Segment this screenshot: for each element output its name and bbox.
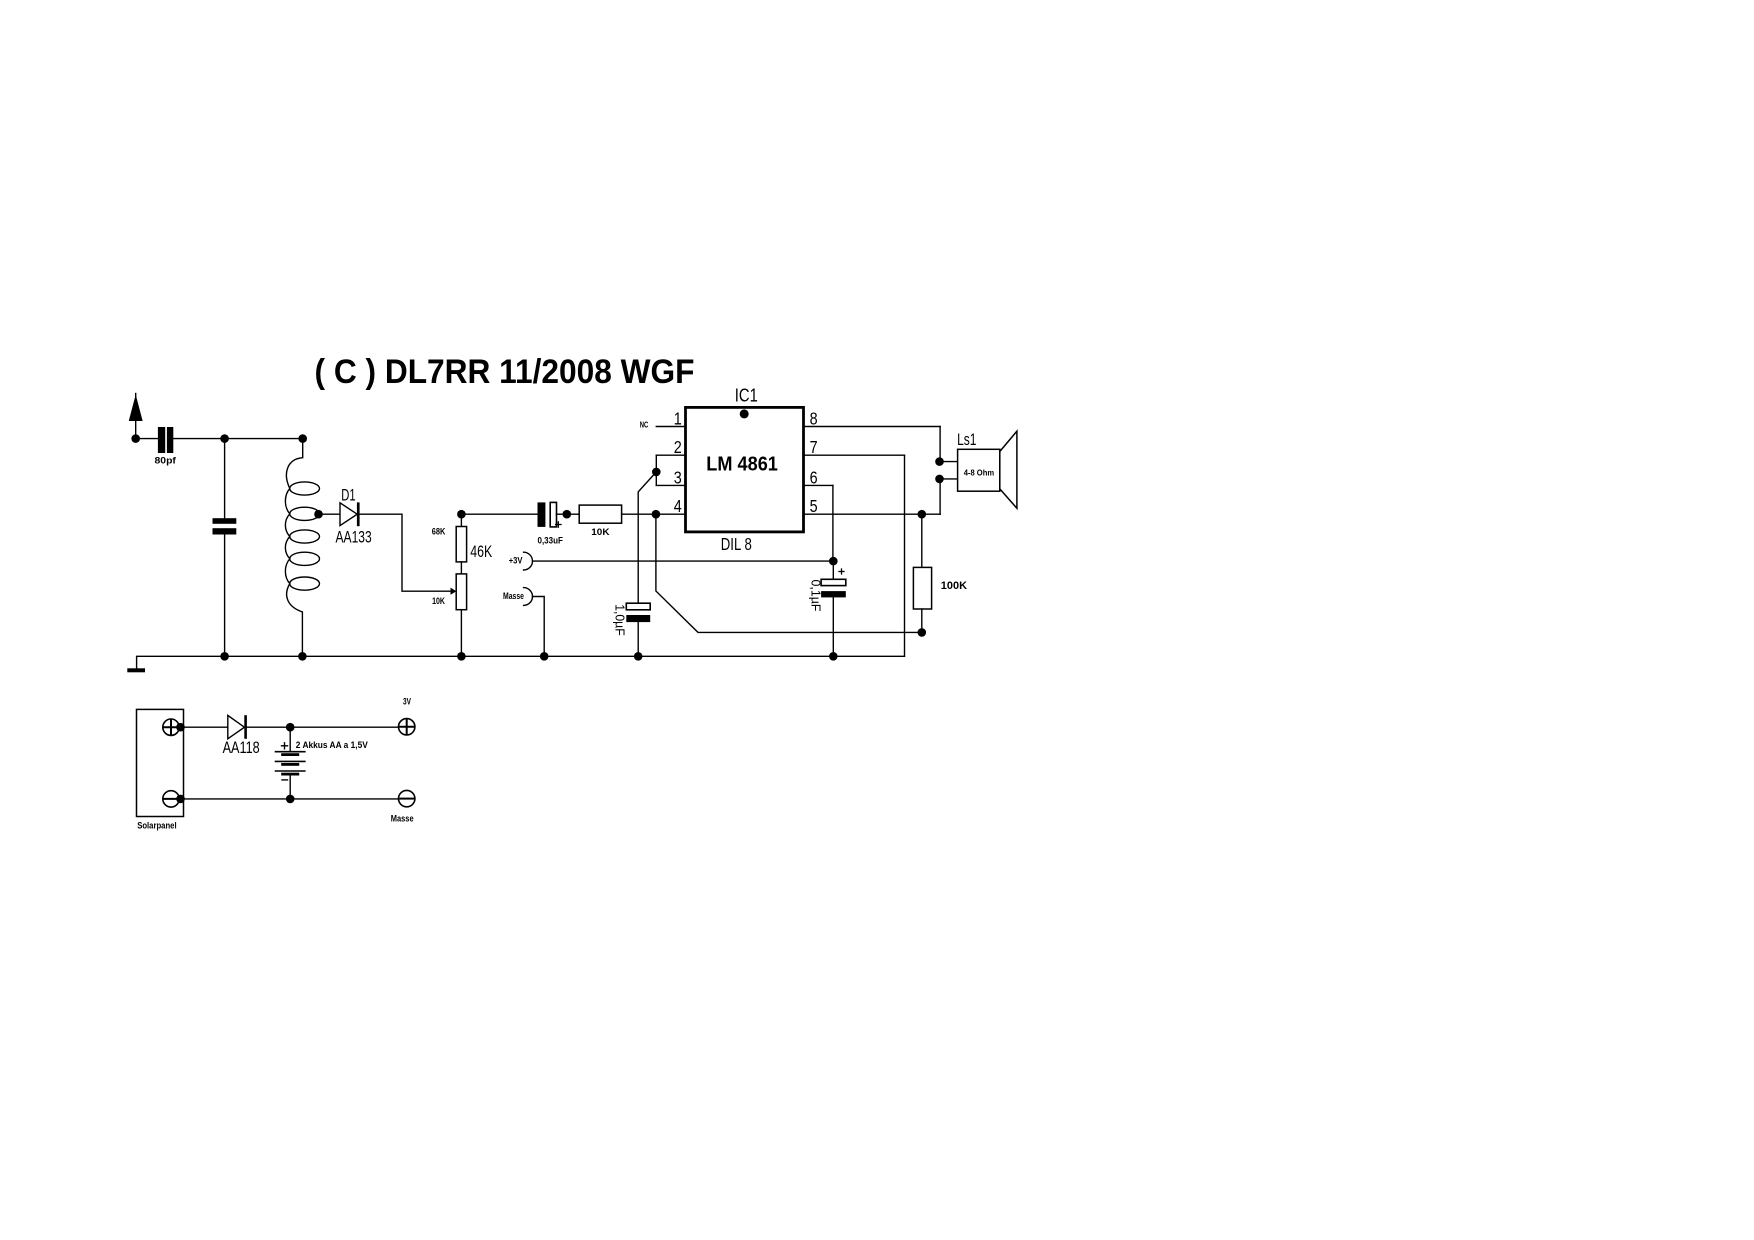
wire antenna to 80pf <box>136 438 158 440</box>
svg-text:IC1: IC1 <box>735 386 758 406</box>
svg-text:8: 8 <box>810 409 818 429</box>
svg-text:3: 3 <box>674 467 682 487</box>
node 100K bottom <box>918 628 927 637</box>
wire bracket diagonal to 1,0uF <box>638 472 656 603</box>
svg-text:4: 4 <box>674 496 682 516</box>
wire between resistors <box>460 562 462 574</box>
node coil tap <box>314 510 323 519</box>
resistor 68K 46K <box>456 527 466 562</box>
inductor L1 coil <box>285 439 302 657</box>
wire pin7 down to bus <box>904 455 906 656</box>
svg-text:Ls1: Ls1 <box>957 431 976 449</box>
node bus 1,0uF <box>634 652 643 661</box>
svg-text:68K: 68K <box>432 526 446 536</box>
pin 6 <box>804 484 833 486</box>
svg-text:4-8 Ohm: 4-8 Ohm <box>964 467 995 477</box>
svg-text:Masse: Masse <box>391 814 414 824</box>
diode D1 AA133 <box>340 503 357 526</box>
node bus 0,1uF <box>829 652 838 661</box>
node +3V 0,1uF top <box>829 557 838 566</box>
svg-text:0,33uF: 0,33uF <box>538 535 564 545</box>
node battery top <box>286 723 295 732</box>
svg-text:0,1µF: 0,1µF <box>809 580 824 612</box>
node pin4 <box>652 510 661 519</box>
svg-text:100K: 100K <box>941 580 967 592</box>
svg-text:Masse: Masse <box>503 591 524 601</box>
svg-text:+3V: +3V <box>509 556 523 566</box>
wire D1 to pot wiper <box>360 514 452 591</box>
wire 80pf to tuning cap node <box>173 438 224 440</box>
wire pin8 down to speaker top <box>939 427 941 462</box>
wire cap to 10K <box>557 513 580 515</box>
svg-text:7: 7 <box>810 437 818 457</box>
wire panel to AA118 <box>181 726 228 728</box>
svg-text:10K: 10K <box>432 596 445 606</box>
potentiometer 10K <box>456 574 466 610</box>
pin 2 <box>656 454 685 456</box>
wire tap to D1 <box>319 513 341 515</box>
terminal Masse <box>399 790 415 806</box>
svg-text:6: 6 <box>810 467 818 487</box>
capacitor 80pf <box>158 427 165 453</box>
connector +3V <box>524 552 533 570</box>
IC U1 LM 4861 <box>686 407 804 532</box>
node tuning cap top <box>220 434 229 443</box>
node antenna junction <box>131 434 140 443</box>
wire pin6 down to +3V node <box>832 485 834 561</box>
resistor 10K series <box>579 505 621 523</box>
svg-text:80pf: 80pf <box>155 456 178 466</box>
pin 5 <box>804 513 941 515</box>
svg-text:D1: D1 <box>341 486 355 505</box>
svg-text:LM 4861: LM 4861 <box>706 453 778 476</box>
wire tuning cap top lead <box>224 439 226 519</box>
svg-text:1,0µF: 1,0µF <box>613 604 628 636</box>
wire node to coil top <box>225 438 303 440</box>
battery 2 Akkus AA <box>289 727 291 752</box>
svg-text:10K: 10K <box>591 527 610 537</box>
wire battery node to 3V terminal <box>290 726 398 728</box>
antenna <box>135 394 137 439</box>
svg-text:2 Akkus AA a 1,5V: 2 Akkus AA a 1,5V <box>296 740 368 750</box>
svg-text:NC: NC <box>640 419 649 429</box>
terminal panel plus <box>163 719 179 735</box>
node bracket <box>652 468 661 477</box>
wire 10K to pin4 <box>622 513 686 515</box>
node bus tuning cap <box>220 652 229 661</box>
wire 68K node to 0,33uF <box>461 513 537 515</box>
pin 3 <box>656 484 685 486</box>
node pin5 100K top <box>918 510 927 519</box>
wire Masse to bus <box>533 597 545 657</box>
node bus Masse <box>540 652 549 661</box>
capacitor 1,0uF <box>626 603 650 610</box>
svg-text:1: 1 <box>674 409 682 429</box>
node after 0,33uF <box>563 510 572 519</box>
wire panel minus to Masse terminal <box>181 798 399 800</box>
svg-text:AA133: AA133 <box>336 528 372 547</box>
svg-text:DIL 8: DIL 8 <box>721 534 752 554</box>
wire 0,1uF to bus <box>832 597 834 656</box>
pin 8 <box>804 426 941 428</box>
wire tuning cap bottom lead <box>224 535 226 657</box>
node resistor 68K top <box>457 510 466 519</box>
svg-text:Solarpanel: Solarpanel <box>137 821 176 831</box>
ground <box>127 668 145 672</box>
svg-text:46K: 46K <box>470 542 492 561</box>
terminal 3V <box>399 719 415 735</box>
wire pot bottom to bus <box>460 610 462 657</box>
node bus pot <box>457 652 466 661</box>
wire bracket pins 2-3 <box>655 455 657 485</box>
pin 1 <box>656 426 685 428</box>
capacitor 0,33uF <box>538 502 546 527</box>
speaker Ls1 <box>935 457 944 466</box>
wire +3V line <box>533 560 833 562</box>
svg-text:3V: 3V <box>403 697 411 707</box>
wire pin4 node down and diagonal to 100K bottom <box>656 514 922 632</box>
capacitor C tuning <box>213 518 237 524</box>
terminal panel minus <box>163 791 179 807</box>
ground bus <box>137 656 905 669</box>
wire node to 68K <box>460 514 462 526</box>
svg-text:AA118: AA118 <box>223 738 260 757</box>
resistor 100K <box>921 514 923 567</box>
svg-text:2: 2 <box>674 437 682 457</box>
diode AA118 <box>228 715 245 738</box>
wire AA118 to battery node <box>247 726 290 728</box>
node bus coil <box>298 652 307 661</box>
svg-text:5: 5 <box>810 496 818 516</box>
node battery bottom <box>286 795 295 804</box>
connector Masse <box>524 588 533 606</box>
svg-text:( C ) DL7RR 11/2008 WGF: ( C ) DL7RR 11/2008 WGF <box>315 353 695 391</box>
wire 1,0uF to bus <box>637 622 639 656</box>
capacitor 0,1uF <box>832 561 834 579</box>
solar panel <box>137 709 184 816</box>
pin 7 <box>804 454 905 456</box>
node coil top <box>298 434 307 443</box>
wire speaker bottom lead <box>939 479 941 514</box>
